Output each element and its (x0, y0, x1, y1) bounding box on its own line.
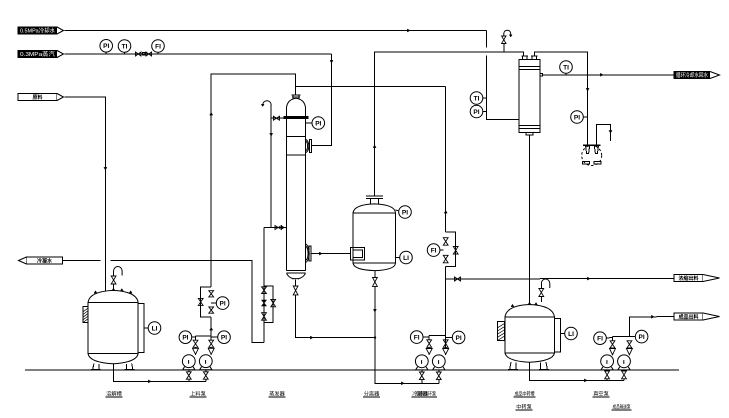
svg-text:原料: 原料 (32, 94, 42, 101)
stream flag raw material inlet (18, 94, 64, 102)
product pump B suction valve (623, 369, 625, 372)
flow arrow vacuum suction (586, 88, 589, 91)
separator top nozzle flange (366, 196, 383, 204)
instrument PI separator (396, 206, 412, 219)
wire cooling water supply line to condenser (65, 30, 487, 32)
circulation bypass loop (446, 232, 456, 266)
feed pump B suction valve (205, 370, 207, 372)
wire condensate draw line (63, 261, 264, 343)
svg-text:PI: PI (574, 114, 580, 121)
separator top head (353, 204, 396, 213)
flow arrow separator bottom (373, 309, 376, 312)
flow arrow on steam downcomer (330, 60, 333, 63)
valve circulation lower (443, 255, 448, 262)
circ pump discharge header (429, 335, 446, 337)
drain bypass loop (264, 286, 273, 323)
grade line (25, 369, 679, 371)
instrument LI separator (396, 251, 413, 264)
flow arrow vacuum discharge (609, 131, 612, 134)
instrument FI on steam line (152, 40, 165, 54)
flow arrow feed riser low (210, 328, 213, 331)
svg-text:成品中转槽: 成品中转槽 (515, 390, 535, 398)
label product pumps row2 (612, 403, 632, 411)
flow arrow on product draw line (587, 277, 590, 280)
instrument PI on steam line (100, 40, 113, 55)
svg-text:TI: TI (122, 43, 128, 50)
instrument PI feed pump A (179, 331, 195, 344)
product pump discharge header (613, 336, 630, 338)
dissolving tank wall bracket (hatched) (83, 307, 88, 323)
valve on vent tie (274, 116, 280, 120)
vacuum pump feet (582, 162, 601, 164)
transfer tank vent valve (540, 284, 542, 289)
condenser bottom outlet stub (526, 133, 533, 304)
valve separator bottom (373, 278, 378, 287)
valve on product draw line (455, 277, 461, 281)
transfer tank top head (505, 305, 555, 318)
vacuum pump inlet funnels (586, 146, 599, 153)
transfer tank legs (508, 362, 549, 370)
label transfer pumps row2 (516, 403, 533, 411)
flow arrow transfer tank outlet (584, 379, 587, 382)
circ pump A discharge riser (428, 353, 430, 356)
wire forced circulation riser (296, 86, 446, 355)
evaporator bottom tube sheet (287, 271, 306, 274)
wire concentrate line to separator (311, 253, 350, 255)
label evaporator (269, 390, 286, 398)
wire vacuum discharge pipe (597, 124, 611, 145)
wire evaporator bottom outlet (296, 279, 375, 337)
svg-text:FI: FI (431, 248, 437, 255)
valve feed riser lower (209, 307, 214, 313)
condenser vent stub and valve (503, 44, 505, 53)
pump product pump A (601, 355, 614, 370)
valve drain lower (262, 313, 267, 321)
instrument PI cooling water in (470, 105, 486, 118)
svg-text:FI: FI (597, 336, 603, 343)
flow arrow concentrate line (319, 252, 322, 255)
flow arrow on vent stack (270, 133, 273, 136)
wire separator vapor line to condenser (375, 52, 524, 196)
evaporator vent goose-neck (263, 101, 272, 106)
wire feed riser main (211, 74, 295, 340)
svg-text:真空泵: 真空泵 (593, 390, 609, 398)
instrument PI feed pump B (211, 331, 230, 344)
pump feed pump A (182, 355, 195, 370)
evaporator upper tube sheet (284, 117, 308, 119)
svg-text:PI: PI (182, 335, 188, 342)
condenser top nozzle left (522, 56, 529, 60)
separator bottom head (353, 263, 396, 271)
dissolving tank top head (88, 290, 138, 302)
instrument PI circ pumps (446, 331, 465, 344)
flow arrow lower tie (282, 226, 285, 229)
valve evaporator bottom outlet (293, 286, 298, 295)
instrument LI transfer tank (561, 327, 578, 340)
wire lower drain tie to column (264, 227, 287, 229)
wire product transfer line (629, 317, 674, 337)
feed pump discharge header (196, 335, 212, 337)
wire separator bottom outlet (375, 271, 439, 384)
condenser side outlet stub (540, 74, 543, 76)
svg-text:FI: FI (414, 335, 420, 342)
svg-text:中转泵: 中转泵 (516, 403, 532, 411)
svg-text:冷凝水: 冷凝水 (37, 258, 53, 265)
wire steam main (65, 54, 332, 146)
wire drain drop leg x264 (263, 228, 265, 343)
circ pump B discharge riser (445, 353, 447, 356)
vessel dissolving tank body (88, 303, 138, 354)
valve pressure reducing station on steam line (136, 52, 142, 56)
valve on lower tie (275, 226, 282, 230)
flow arrow evap drain horizontal (310, 336, 313, 339)
stream flag 0.5MPa steam-condensate inlet (top-left) (18, 27, 64, 35)
product pump B discharge riser (628, 354, 630, 356)
evaporator column shell (287, 98, 306, 270)
flow arrow tank outlet (148, 380, 151, 383)
transfer tank dome ticks (511, 304, 514, 306)
flow arrow circ suction header (401, 382, 404, 385)
svg-text:TI: TI (474, 95, 480, 102)
condenser lower tube sheet (519, 126, 540, 129)
label dissolving tank (106, 390, 123, 398)
pump circulation pump B (432, 355, 445, 370)
wire vacuum suction line (534, 52, 587, 145)
wire steam line into bell nozzle (310, 145, 312, 147)
feed pump bypass loop (201, 287, 212, 317)
node junction drain tie (374, 336, 376, 338)
instrument PI vacuum line (571, 111, 588, 124)
svg-text:LI: LI (568, 331, 574, 338)
vessel transfer tank body (505, 317, 555, 353)
instrument PI product pumps (629, 330, 647, 343)
flow arrow on return line (600, 73, 603, 76)
svg-text:PI: PI (402, 209, 408, 216)
feed pump A discharge riser (195, 353, 197, 356)
flow arrow separator vapor line (373, 145, 376, 148)
instrument PI on evaporator top (306, 117, 325, 130)
svg-text:溶解槽: 溶解槽 (106, 390, 122, 398)
instrument FI product pumps (594, 332, 613, 345)
label condenser (412, 390, 429, 398)
label feed pumps (190, 390, 207, 398)
svg-text:浓缩出料: 浓缩出料 (678, 275, 698, 282)
vacuum pump casing (dashed) (582, 146, 602, 166)
transfer tank vent goose-neck (541, 279, 550, 288)
svg-text:PI: PI (315, 120, 321, 127)
vacuum pump top flange (583, 144, 601, 146)
stream flag condensate outlet (left) (19, 257, 63, 265)
valve drain upper (262, 287, 267, 294)
instrument LI on dissolving tank (144, 322, 161, 335)
wire raw material line to dissolving tank (65, 97, 106, 291)
wire cooling water return line (543, 74, 675, 76)
svg-text:蒸发器: 蒸发器 (269, 390, 285, 398)
instrument TI on steam line (118, 40, 131, 54)
svg-text:PI: PI (103, 43, 109, 50)
valve drain branch (271, 299, 276, 306)
label circulation pumps (415, 390, 437, 398)
svg-text:成品出料: 成品出料 (678, 314, 698, 321)
transfer tank bottom head (505, 353, 555, 362)
svg-text:成品输送泵: 成品输送泵 (613, 403, 631, 411)
flow arrow on transfer line (651, 315, 654, 318)
svg-text:循环冷却水回水: 循环冷却水回水 (676, 71, 708, 79)
stream flag concentrate product outlet (674, 275, 720, 283)
instrument TI on return line (560, 61, 573, 75)
circ pump A suction valve (421, 370, 423, 372)
product pump A suction valve (606, 369, 608, 372)
svg-text:分离器: 分离器 (364, 390, 380, 398)
wire dissolving tank bottom outlet (113, 364, 188, 382)
flow arrow feed riser high (210, 113, 213, 116)
instrument FI circ pumps (410, 331, 429, 344)
label transfer tank (514, 390, 536, 398)
evaporator shell section line lower (287, 154, 306, 156)
evaporator bottom cone (287, 273, 306, 279)
instrument PI on feed riser (211, 297, 229, 310)
valve feed bypass branch (198, 298, 203, 305)
separator vessel shell (353, 213, 396, 263)
dissolving tank bottom head (88, 354, 138, 364)
wire cooling water downcomer x486 (487, 31, 520, 120)
instrument TI cooling water in (470, 92, 486, 105)
condenser shell (519, 60, 540, 133)
product pump A discharge riser (612, 354, 614, 356)
valve feed riser upper (209, 291, 214, 297)
pump circulation pump A (415, 355, 428, 370)
dissolving tank legs (91, 363, 134, 369)
svg-text:FI: FI (155, 43, 161, 50)
feed pump B discharge riser (210, 353, 212, 356)
stream flag cooling water return (right) (674, 71, 720, 79)
svg-text:LI: LI (152, 325, 158, 332)
evaporator top nozzle (291, 95, 300, 99)
dissolving tank side panel (138, 304, 144, 353)
svg-text:PI: PI (473, 109, 479, 116)
separator feed nozzle (left) (350, 248, 364, 261)
wire transfer tank bottom outlet (529, 362, 607, 380)
node junction transfer tank top (528, 303, 530, 305)
pump product pump B (618, 355, 631, 370)
dissolving tank vent goose-neck (114, 267, 123, 276)
valve circulation branch (453, 247, 458, 255)
evaporator lower outlet bell nozzle (306, 244, 310, 263)
condenser top nozzle right (531, 56, 538, 60)
evaporator shell section line upper (287, 135, 306, 137)
evaporator steam inlet bell nozzle (306, 139, 309, 152)
svg-text:0.5MPa冷却水: 0.5MPa冷却水 (20, 27, 55, 35)
flow arrow on raw material line (104, 167, 107, 170)
condenser upper tube sheet (519, 67, 540, 70)
transfer tank wall bracket (hatched) (498, 322, 505, 341)
valve circulation upper (443, 238, 448, 246)
label vacuum pump (593, 390, 610, 398)
stream flag product transfer outlet (674, 313, 720, 321)
svg-text:0.3MPa蒸汽: 0.3MPa蒸汽 (20, 50, 56, 58)
wire vent tie to column top (271, 117, 286, 119)
svg-text:上料泵: 上料泵 (190, 390, 206, 398)
flow arrow on cooling water line (407, 29, 410, 32)
svg-text:LI: LI (403, 255, 409, 262)
node junction on tank top (112, 289, 114, 291)
label separator (363, 390, 380, 398)
svg-text:PI: PI (220, 301, 226, 308)
evaporator vent stack (270, 105, 272, 228)
condenser vent goose-neck (504, 30, 511, 36)
instrument FI circulation (427, 244, 443, 257)
check valve drain middle (262, 300, 266, 306)
transfer tank side panel (555, 319, 561, 353)
svg-text:PI: PI (456, 335, 462, 342)
svg-text:冷凝器: 冷凝器 (412, 390, 428, 398)
svg-text:PI: PI (639, 334, 645, 341)
pump feed pump B (199, 355, 212, 370)
dissolving tank vent valve (113, 271, 115, 276)
svg-text:TI: TI (563, 64, 569, 71)
stream flag 0.3MPa steam inlet (18, 50, 64, 58)
flow arrow circulation riser (444, 211, 447, 214)
wire product draw line (446, 277, 674, 280)
svg-text:PI: PI (221, 335, 227, 342)
dissolving tank dome nozzle ticks (94, 291, 97, 293)
feed pump A suction valve (188, 370, 190, 372)
circ pump B suction valve (438, 370, 440, 372)
